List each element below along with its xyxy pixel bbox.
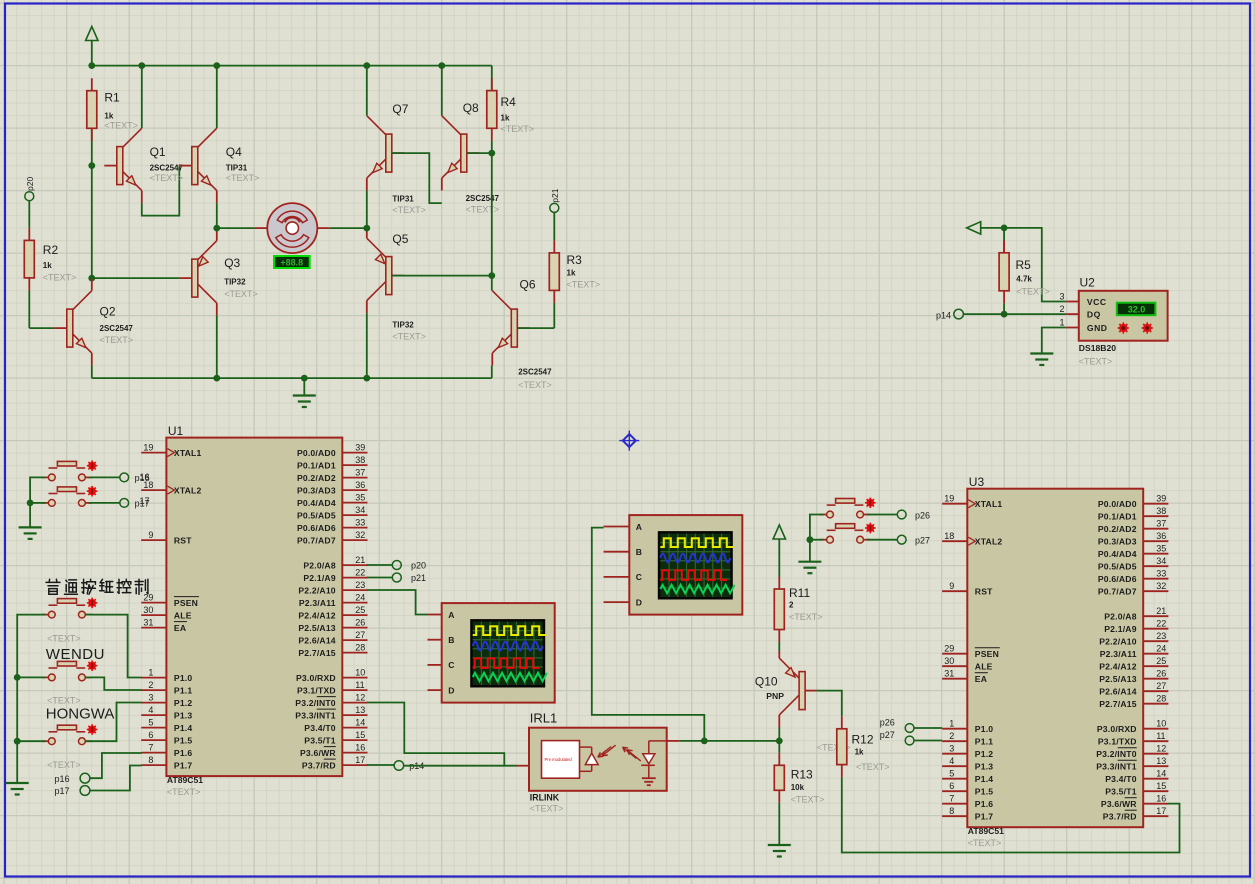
svg-text:10k: 10k	[791, 783, 805, 792]
svg-text:P2.2/A10: P2.2/A10	[1099, 636, 1136, 646]
svg-text:P0.3/AD3: P0.3/AD3	[297, 485, 336, 495]
svg-text:R4: R4	[501, 95, 517, 109]
svg-text:R2: R2	[43, 243, 59, 257]
svg-text:2SC2547: 2SC2547	[518, 367, 552, 376]
svg-text:P3.6/WR: P3.6/WR	[300, 748, 336, 758]
svg-text:U3: U3	[969, 475, 985, 489]
svg-text:P3.0/RXD: P3.0/RXD	[296, 673, 336, 683]
svg-text:P2.0/A8: P2.0/A8	[303, 560, 335, 570]
svg-text:P1.6: P1.6	[975, 799, 993, 809]
svg-text:P0.5/AD5: P0.5/AD5	[1098, 561, 1137, 571]
svg-text:P0.7/AD7: P0.7/AD7	[1098, 586, 1137, 596]
svg-text:<TEXT>: <TEXT>	[1016, 287, 1050, 297]
svg-text:P3.7/RD: P3.7/RD	[1103, 811, 1137, 821]
svg-text:21: 21	[355, 555, 365, 565]
svg-text:U2: U2	[1080, 276, 1096, 290]
svg-text:<TEXT>: <TEXT>	[968, 838, 1002, 848]
svg-text:P0.4/AD4: P0.4/AD4	[297, 498, 336, 508]
svg-text:Q5: Q5	[392, 232, 408, 246]
svg-text:27: 27	[1156, 681, 1166, 691]
svg-text:35: 35	[355, 492, 365, 502]
svg-text:12: 12	[1156, 744, 1166, 754]
svg-text:9: 9	[949, 581, 954, 591]
svg-text:22: 22	[1156, 619, 1166, 629]
svg-text:p26: p26	[880, 718, 895, 728]
svg-text:P1.2: P1.2	[975, 749, 993, 759]
svg-text:Q10: Q10	[755, 675, 778, 689]
svg-text:P0.2/AD2: P0.2/AD2	[1098, 524, 1137, 534]
svg-text:25: 25	[355, 605, 365, 615]
svg-text:19: 19	[944, 494, 954, 504]
svg-text:39: 39	[1156, 494, 1166, 504]
svg-text:p17: p17	[55, 786, 70, 796]
svg-text:P3.1/TXD: P3.1/TXD	[1098, 736, 1137, 746]
svg-text:P2.2/A10: P2.2/A10	[298, 585, 335, 595]
svg-text:HONGWAI: HONGWAI	[46, 706, 119, 723]
svg-text:p16: p16	[55, 774, 70, 784]
svg-text:p21: p21	[411, 573, 426, 583]
svg-text:TIP32: TIP32	[392, 320, 414, 329]
svg-text:R3: R3	[567, 253, 583, 267]
svg-text:P0.6/AD6: P0.6/AD6	[297, 523, 336, 533]
svg-text:<TEXT>: <TEXT>	[104, 121, 138, 131]
svg-text:<TEXT>: <TEXT>	[856, 762, 890, 772]
svg-text:TIP31: TIP31	[226, 163, 248, 172]
svg-text:14: 14	[355, 717, 365, 727]
svg-text:<TEXT>: <TEXT>	[567, 280, 601, 290]
svg-text:A: A	[636, 522, 642, 532]
svg-text:37: 37	[355, 467, 365, 477]
svg-text:<TEXT>: <TEXT>	[226, 173, 260, 183]
svg-text:XTAL1: XTAL1	[174, 448, 202, 458]
svg-text:P1.5: P1.5	[174, 735, 192, 745]
svg-text:P2.5/A13: P2.5/A13	[1099, 674, 1136, 684]
svg-text:13: 13	[355, 705, 365, 715]
svg-text:<TEXT>: <TEXT>	[518, 380, 552, 390]
svg-text:A: A	[448, 610, 454, 620]
svg-text:13: 13	[1156, 756, 1166, 766]
svg-text:1k: 1k	[567, 269, 576, 278]
svg-text:16: 16	[355, 742, 365, 752]
svg-text:35: 35	[1156, 544, 1166, 554]
svg-text:<TEXT>: <TEXT>	[150, 173, 184, 183]
svg-text:10: 10	[1156, 719, 1166, 729]
svg-text:P1.3: P1.3	[174, 710, 192, 720]
svg-text:<TEXT>: <TEXT>	[224, 289, 258, 299]
svg-text:26: 26	[355, 617, 365, 627]
svg-text:28: 28	[1156, 694, 1166, 704]
svg-text:<TEXT>: <TEXT>	[501, 124, 535, 134]
svg-text:19: 19	[143, 442, 153, 452]
svg-text:1: 1	[1059, 318, 1064, 328]
svg-text:<TEXT>: <TEXT>	[43, 273, 77, 283]
svg-text:+88.8: +88.8	[280, 258, 303, 268]
svg-text:P1.1: P1.1	[174, 685, 192, 695]
svg-text:P2.1/A9: P2.1/A9	[1104, 624, 1136, 634]
svg-text:3: 3	[949, 744, 954, 754]
svg-text:EA: EA	[174, 623, 186, 633]
svg-text:<TEXT>: <TEXT>	[789, 612, 823, 622]
svg-text:p14: p14	[936, 310, 951, 320]
svg-text:22: 22	[355, 567, 365, 577]
svg-text:DQ: DQ	[1087, 310, 1101, 320]
svg-text:C: C	[636, 572, 642, 582]
svg-text:P3.6/WR: P3.6/WR	[1101, 799, 1137, 809]
svg-text:RST: RST	[975, 586, 993, 596]
svg-text:6: 6	[949, 781, 954, 791]
svg-text:33: 33	[1156, 569, 1166, 579]
svg-text:IRLINK: IRLINK	[530, 792, 560, 802]
svg-text:P3.2/INT0: P3.2/INT0	[1096, 749, 1137, 759]
svg-text:R13: R13	[791, 768, 813, 782]
svg-text:<TEXT>: <TEXT>	[167, 787, 201, 797]
svg-text:P1.4: P1.4	[174, 723, 192, 733]
svg-text:4.7k: 4.7k	[1016, 275, 1032, 284]
svg-text:5: 5	[949, 769, 954, 779]
svg-text:PNP: PNP	[766, 691, 784, 701]
svg-text:P1.7: P1.7	[174, 760, 192, 770]
svg-text:ALE: ALE	[174, 610, 192, 620]
svg-text:21: 21	[1156, 606, 1166, 616]
svg-text:P0.7/AD7: P0.7/AD7	[297, 535, 336, 545]
svg-text:D: D	[448, 685, 454, 695]
svg-text:<TEXT>: <TEXT>	[392, 205, 426, 215]
svg-text:1k: 1k	[104, 112, 113, 121]
svg-text:R5: R5	[1016, 258, 1032, 272]
svg-text:1k: 1k	[501, 114, 510, 123]
svg-text:P2.7/A15: P2.7/A15	[1099, 699, 1136, 709]
svg-text:30: 30	[944, 656, 954, 666]
svg-text:Q6: Q6	[520, 278, 536, 292]
svg-text:17: 17	[1156, 806, 1166, 816]
svg-text:P0.1/AD1: P0.1/AD1	[297, 460, 336, 470]
svg-text:29: 29	[944, 644, 954, 654]
svg-text:38: 38	[355, 455, 365, 465]
svg-text:14: 14	[1156, 769, 1166, 779]
svg-text:2: 2	[1059, 304, 1064, 314]
svg-text:B: B	[448, 635, 454, 645]
svg-text:8: 8	[949, 806, 954, 816]
svg-text:P0.0/AD0: P0.0/AD0	[297, 448, 336, 458]
svg-text:27: 27	[355, 630, 365, 640]
svg-text:P0.2/AD2: P0.2/AD2	[297, 473, 336, 483]
svg-text:2SC2547: 2SC2547	[466, 194, 500, 203]
svg-text:P1.4: P1.4	[975, 774, 993, 784]
svg-text:P3.2/INT0: P3.2/INT0	[295, 698, 336, 708]
svg-text:18: 18	[944, 531, 954, 541]
svg-text:VCC: VCC	[1087, 297, 1107, 307]
svg-text:EA: EA	[975, 674, 987, 684]
svg-text:7: 7	[949, 794, 954, 804]
svg-text:39: 39	[355, 442, 365, 452]
svg-text:10: 10	[355, 667, 365, 677]
svg-text:PSEN: PSEN	[174, 598, 198, 608]
svg-text:32: 32	[1156, 581, 1166, 591]
svg-text:P2.6/A14: P2.6/A14	[298, 635, 335, 645]
svg-text:5: 5	[148, 717, 153, 727]
svg-text:P3.3/INT1: P3.3/INT1	[1096, 761, 1137, 771]
svg-text:PSEN: PSEN	[975, 649, 999, 659]
svg-text:34: 34	[355, 505, 365, 515]
svg-text:P1.2: P1.2	[174, 698, 192, 708]
svg-text:P2.6/A14: P2.6/A14	[1099, 686, 1136, 696]
svg-text:P1.5: P1.5	[975, 786, 993, 796]
svg-text:P0.0/AD0: P0.0/AD0	[1098, 499, 1137, 509]
svg-text:24: 24	[355, 592, 365, 602]
svg-text:XTAL1: XTAL1	[975, 499, 1003, 509]
svg-text:R1: R1	[104, 91, 120, 105]
svg-text:Pre modulated: Pre modulated	[545, 757, 573, 762]
svg-text:RST: RST	[174, 535, 192, 545]
svg-text:4: 4	[148, 705, 153, 715]
svg-text:8: 8	[148, 755, 153, 765]
svg-text:32.0: 32.0	[1128, 304, 1146, 314]
svg-text:2: 2	[789, 601, 794, 610]
svg-text:3: 3	[1059, 292, 1064, 302]
svg-text:GND: GND	[1087, 323, 1108, 333]
svg-text:DS18B20: DS18B20	[1079, 343, 1116, 353]
svg-text:AT89C51: AT89C51	[167, 775, 203, 785]
svg-text:36: 36	[1156, 531, 1166, 541]
svg-text:17: 17	[355, 755, 365, 765]
svg-text:P3.4/T0: P3.4/T0	[304, 723, 336, 733]
svg-text:16: 16	[1156, 794, 1166, 804]
svg-text:2SC2547: 2SC2547	[100, 324, 134, 333]
svg-text:P1.1: P1.1	[975, 736, 993, 746]
svg-text:2: 2	[148, 680, 153, 690]
svg-text:2SC2547: 2SC2547	[150, 163, 184, 172]
svg-text:7: 7	[148, 742, 153, 752]
svg-text:23: 23	[1156, 631, 1166, 641]
svg-text:TIP32: TIP32	[224, 278, 246, 287]
svg-text:4: 4	[949, 756, 954, 766]
svg-text:Q1: Q1	[150, 145, 166, 159]
svg-text:Q7: Q7	[392, 102, 408, 116]
svg-text:<TEXT>: <TEXT>	[47, 695, 81, 705]
svg-text:30: 30	[143, 605, 153, 615]
svg-text:26: 26	[1156, 669, 1166, 679]
svg-text:33: 33	[355, 517, 365, 527]
svg-text:P2.5/A13: P2.5/A13	[298, 623, 335, 633]
svg-text:36: 36	[355, 480, 365, 490]
svg-text:25: 25	[1156, 656, 1166, 666]
svg-text:31: 31	[143, 617, 153, 627]
svg-text:15: 15	[355, 730, 365, 740]
svg-text:P0.3/AD3: P0.3/AD3	[1098, 536, 1137, 546]
svg-text:Q4: Q4	[226, 145, 242, 159]
svg-text:WENDU: WENDU	[46, 646, 105, 663]
svg-text:Q3: Q3	[224, 256, 240, 270]
svg-text:P3.0/RXD: P3.0/RXD	[1097, 724, 1137, 734]
svg-text:D: D	[636, 597, 642, 607]
svg-text:AT89C51: AT89C51	[968, 826, 1004, 836]
svg-text:23: 23	[355, 580, 365, 590]
svg-text:R11: R11	[789, 586, 810, 600]
svg-text:IRL1: IRL1	[530, 711, 557, 726]
svg-text:P0.4/AD4: P0.4/AD4	[1098, 549, 1137, 559]
svg-text:P3.3/INT1: P3.3/INT1	[295, 710, 336, 720]
svg-text:9: 9	[148, 530, 153, 540]
svg-text:1k: 1k	[43, 261, 52, 270]
svg-text:P3.7/RD: P3.7/RD	[302, 760, 336, 770]
svg-text:<TEXT>: <TEXT>	[100, 335, 134, 345]
svg-text:28: 28	[355, 642, 365, 652]
svg-text:R12: R12	[852, 733, 874, 747]
svg-text:P2.0/A8: P2.0/A8	[1104, 611, 1136, 621]
svg-text:XTAL2: XTAL2	[975, 536, 1003, 546]
svg-text:P3.5/T1: P3.5/T1	[304, 735, 336, 745]
svg-text:24: 24	[1156, 644, 1166, 654]
svg-text:P3.4/T0: P3.4/T0	[1105, 774, 1137, 784]
svg-text:Q2: Q2	[100, 305, 116, 319]
svg-text:TIP31: TIP31	[392, 195, 414, 204]
svg-text:12: 12	[355, 692, 365, 702]
svg-text:2: 2	[949, 731, 954, 741]
svg-text:C: C	[448, 660, 454, 670]
svg-text:11: 11	[355, 680, 364, 690]
svg-text:P2.4/A12: P2.4/A12	[1099, 661, 1136, 671]
svg-text:32: 32	[355, 530, 365, 540]
svg-text:<TEXT>: <TEXT>	[47, 760, 81, 770]
svg-text:11: 11	[1156, 731, 1165, 741]
svg-text:B: B	[636, 547, 642, 557]
svg-text:P2.3/A11: P2.3/A11	[1100, 649, 1137, 659]
svg-text:P0.1/AD1: P0.1/AD1	[1098, 511, 1137, 521]
svg-text:15: 15	[1156, 781, 1166, 791]
svg-text:P2.3/A11: P2.3/A11	[299, 598, 336, 608]
svg-text:P0.5/AD5: P0.5/AD5	[297, 510, 336, 520]
svg-text:1: 1	[148, 667, 153, 677]
svg-text:<TEXT>: <TEXT>	[530, 804, 564, 814]
svg-text:P3.5/T1: P3.5/T1	[1105, 786, 1137, 796]
svg-text:<TEXT>: <TEXT>	[392, 332, 426, 342]
svg-text:P3.1/TXD: P3.1/TXD	[297, 685, 336, 695]
svg-text:p21: p21	[550, 188, 560, 202]
svg-text:p20: p20	[25, 177, 35, 191]
svg-text:1: 1	[949, 719, 954, 729]
svg-text:P0.6/AD6: P0.6/AD6	[1098, 574, 1137, 584]
svg-text:p27: p27	[915, 536, 930, 546]
svg-text:<TEXT>: <TEXT>	[466, 205, 500, 215]
svg-text:P2.1/A9: P2.1/A9	[303, 573, 335, 583]
svg-text:31: 31	[944, 669, 954, 679]
svg-text:34: 34	[1156, 556, 1166, 566]
svg-text:6: 6	[148, 730, 153, 740]
svg-text:<TEXT>: <TEXT>	[47, 633, 81, 643]
svg-text:P2.7/A15: P2.7/A15	[298, 648, 335, 658]
svg-text:37: 37	[1156, 519, 1166, 529]
svg-text:P1.3: P1.3	[975, 761, 993, 771]
svg-text:P2.4/A12: P2.4/A12	[298, 610, 335, 620]
svg-text:P1.6: P1.6	[174, 748, 192, 758]
svg-text:p27: p27	[880, 730, 895, 740]
svg-text:p26: p26	[915, 510, 930, 520]
svg-text:<TEXT>: <TEXT>	[1079, 357, 1113, 367]
svg-text:<TEXT>: <TEXT>	[791, 795, 825, 805]
svg-text:3: 3	[148, 692, 153, 702]
svg-text:ALE: ALE	[975, 661, 993, 671]
svg-text:p20: p20	[411, 561, 426, 571]
svg-text:P1.0: P1.0	[975, 724, 993, 734]
svg-text:P1.0: P1.0	[174, 673, 192, 683]
svg-text:1k: 1k	[855, 748, 864, 757]
svg-text:38: 38	[1156, 506, 1166, 516]
svg-text:XTAL2: XTAL2	[174, 485, 202, 495]
svg-text:p17: p17	[135, 499, 150, 509]
svg-text:Q8: Q8	[463, 101, 479, 115]
svg-text:U1: U1	[168, 424, 184, 438]
svg-text:p16: p16	[135, 473, 150, 483]
svg-text:P1.7: P1.7	[975, 811, 993, 821]
